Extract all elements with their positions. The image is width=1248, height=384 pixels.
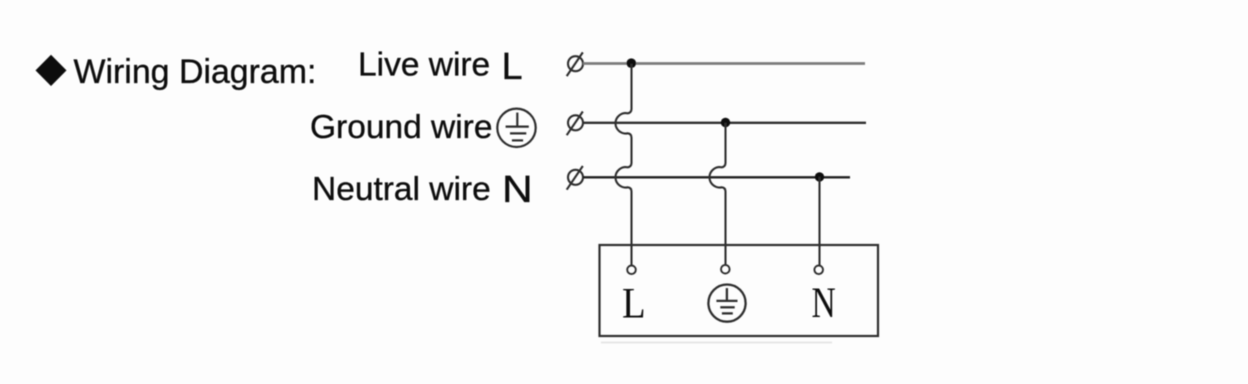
wire-entry symbol (phi) ground (567, 112, 583, 136)
ground vertical wire with hop (709, 123, 725, 265)
ground symbol (label) (497, 109, 535, 147)
terminal circle ground (721, 265, 730, 274)
svg-text:N: N (502, 167, 533, 210)
wire-entry symbol (phi) live (567, 52, 583, 76)
svg-text:L: L (502, 46, 523, 88)
wire-entry symbol (phi) neutral (567, 166, 583, 190)
terminal box (600, 245, 879, 336)
terminal circle L (627, 266, 636, 275)
live vertical wire with hops (615, 64, 631, 266)
svg-text:L: L (622, 279, 646, 326)
faint shadow line under box (601, 342, 832, 344)
neutral wire horizontal (583, 176, 850, 178)
ground symbol (in box) (708, 285, 745, 322)
svg-text:Ground wire: Ground wire (310, 109, 492, 146)
svg-text:Live wire: Live wire (358, 47, 490, 84)
svg-text:Neutral wire: Neutral wire (312, 171, 491, 208)
terminal circle N (814, 266, 823, 275)
ground wire horizontal (583, 122, 866, 124)
live wire horizontal (583, 62, 865, 65)
junction dot live (627, 58, 637, 68)
neutral vertical wire (818, 177, 820, 266)
svg-text:Wiring Diagram:: Wiring Diagram: (74, 53, 317, 91)
bullet diamond (36, 55, 67, 86)
svg-text:N: N (812, 280, 836, 327)
junction dot ground (721, 118, 730, 127)
junction dot neutral (815, 172, 824, 181)
